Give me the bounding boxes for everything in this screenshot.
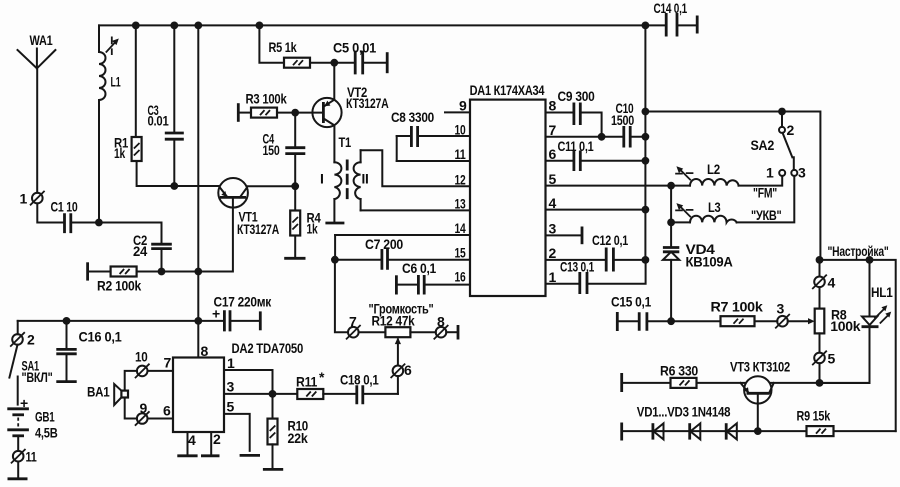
svg-text:7: 7 [549, 122, 557, 138]
pin 15 DA1 [388, 245, 471, 261]
svg-text:C17 220мк: C17 220мк [214, 294, 273, 310]
node 8 (volume terminal) [434, 314, 449, 340]
svg-text:R6 330: R6 330 [660, 363, 698, 379]
svg-text:C18 0,1: C18 0,1 [340, 372, 379, 388]
T1 winding I [334, 162, 341, 199]
svg-text:C11 0,1: C11 0,1 [558, 138, 594, 154]
svg-text:1: 1 [20, 191, 28, 207]
svg-text:6: 6 [163, 403, 171, 419]
pin 6 DA2 [148, 403, 174, 419]
pin 10 DA1 [418, 122, 470, 138]
resistor R3 100k [238, 91, 323, 122]
svg-text:0.01: 0.01 [148, 113, 169, 129]
capacitor C1 10 [51, 199, 99, 234]
transistor VT3 KT3102 [730, 359, 820, 432]
resistor R1 1k [114, 25, 174, 186]
diode VD3 [726, 423, 737, 439]
node 2 (switch terminal) [10, 321, 35, 348]
capacitor C12 0,1 [592, 232, 645, 272]
junction rail/R5 [256, 22, 264, 30]
svg-text:C14 0,1: C14 0,1 [654, 0, 688, 16]
T1 winding II [354, 162, 361, 199]
junction VD4/C15/R7 [667, 317, 675, 325]
junction C9/pin7 [598, 133, 606, 141]
coil L3 [671, 199, 737, 222]
node 5 (R8 bottom terminal) [812, 351, 835, 384]
IC DA1 K174XA34 [470, 82, 546, 296]
supply wire SA1 to bus [18, 320, 199, 322]
coil L1 [99, 25, 121, 222]
junction R5/C5/VT2 [330, 59, 338, 67]
junction pin1/pin3/R10/R11 [269, 390, 277, 398]
wire emitter node to VT1 [174, 185, 219, 187]
capacitor C9 300 [558, 88, 602, 137]
svg-text:11: 11 [455, 146, 466, 162]
varicap diode VD4 KB109A [663, 186, 733, 322]
svg-text:C5 0,01: C5 0,01 [333, 40, 376, 56]
switch SA2 [751, 112, 807, 181]
wire antenna to C1 [37, 203, 64, 222]
pin 16 DA1 [424, 269, 470, 285]
svg-text:6: 6 [404, 362, 412, 378]
pin 11 DA1 [397, 146, 470, 162]
junction rail/C14 [642, 22, 650, 30]
LED HL1 [820, 260, 893, 383]
svg-text:8: 8 [437, 314, 445, 330]
junction bus/C10 [642, 133, 650, 141]
svg-text:C9 300: C9 300 [558, 88, 595, 104]
svg-text:"ВКЛ": "ВКЛ" [22, 369, 53, 385]
svg-text:R7 100k: R7 100k [711, 299, 764, 315]
svg-text:13: 13 [455, 196, 466, 212]
svg-text:R5 1k: R5 1k [269, 39, 297, 55]
junction R8 top / Настройка [816, 256, 824, 264]
junction bus/SA2 feed [642, 108, 650, 116]
L1 trimmer arrow [106, 37, 119, 56]
svg-text:DA1 К174ХА34: DA1 К174ХА34 [470, 82, 545, 98]
IC DA2 TDA7050 [173, 340, 303, 432]
pin 2 DA2 [211, 431, 221, 454]
svg-text:I: I [320, 171, 324, 187]
power bus wire (vertical to DA2 pin 8) [197, 25, 199, 357]
svg-text:3: 3 [549, 221, 557, 237]
node 6 (volume wiper terminal) [391, 362, 412, 378]
pin 7 DA1 [546, 122, 624, 138]
right vertical bus wire [644, 25, 646, 260]
svg-text:9: 9 [140, 400, 148, 416]
wiper arrow to R8 [788, 320, 811, 322]
svg-text:1: 1 [549, 269, 557, 285]
stub bar node 8 [446, 325, 458, 340]
junction C2/R2 [158, 268, 166, 276]
resistor R7 100k [671, 299, 777, 327]
wire SA2 contact 3 to L3 ("УКВ") [737, 176, 795, 223]
svg-text:4: 4 [188, 432, 196, 448]
svg-text:2: 2 [213, 431, 221, 447]
ground C16 [56, 380, 76, 383]
svg-text:150: 150 [263, 142, 280, 158]
capacitor C5 0.01 [333, 40, 387, 75]
svg-text:C6 0,1: C6 0,1 [402, 260, 436, 276]
junction VT3 collector / R8-5 / HL1 [816, 379, 824, 387]
pin 9 DA1 [445, 98, 470, 114]
capacitor C8 3300 [391, 109, 434, 161]
svg-text:VT3 КТ3102: VT3 КТ3102 [730, 359, 790, 375]
svg-text:L2: L2 [707, 161, 720, 177]
capacitor C16 0,1 [56, 321, 122, 382]
junction L1/C1 [95, 219, 103, 227]
svg-text:R3 100k: R3 100k [246, 91, 287, 107]
capacitor C2 24 [133, 232, 172, 272]
svg-text:T1: T1 [339, 134, 352, 150]
svg-text:4,5В: 4,5В [35, 425, 58, 441]
pin 4 DA1 [546, 195, 646, 211]
ground T1 winding I [325, 222, 344, 225]
junction VT3 base / diodes / R9 [754, 427, 762, 435]
pin 8 DA1 [546, 98, 574, 114]
ground pin 2 DA2 [201, 454, 220, 457]
svg-text:1k: 1k [114, 145, 125, 161]
svg-text:*: * [319, 369, 325, 385]
svg-text:"Настройка": "Настройка" [828, 243, 889, 259]
diode VD1 [653, 423, 664, 439]
wire C1 node to C2 [99, 223, 162, 245]
wire bus to SA2 [645, 112, 820, 260]
capacitor C13 0,1 [560, 259, 646, 295]
svg-text:VD1...VD3 1N4148: VD1...VD3 1N4148 [637, 404, 731, 420]
ground pin 4 DA2 [177, 454, 197, 457]
svg-text:DA2 TDA7050: DA2 TDA7050 [232, 340, 304, 356]
resistor R5 1k [259, 25, 334, 67]
antenna WA1 [18, 32, 56, 193]
transformer T1 [320, 134, 369, 223]
junction pin14/C7/volume [331, 256, 339, 264]
svg-text:14: 14 [455, 220, 466, 236]
svg-text:2: 2 [787, 122, 795, 138]
wire VT1 base to bus [198, 197, 233, 271]
svg-text:8: 8 [201, 343, 209, 359]
junction bus/R2 [194, 268, 202, 276]
pin 14 DA1 [335, 220, 470, 260]
ground R10 [263, 468, 283, 471]
junction rail/bus [194, 22, 202, 30]
junction rail/C3 [170, 22, 178, 30]
svg-text:C1 10: C1 10 [51, 199, 78, 215]
svg-text:КВ109А: КВ109А [686, 254, 733, 270]
svg-text:C16 0,1: C16 0,1 [79, 329, 122, 345]
svg-text:4: 4 [549, 195, 557, 211]
junction R3/C4/VT2 base [291, 109, 299, 117]
resistor R11 [296, 369, 357, 399]
capacitor C14 0,1 [645, 0, 697, 37]
transistor VT1 KT3127A [218, 178, 279, 237]
node 11 (battery minus terminal) [11, 449, 37, 465]
svg-text:R2 100k: R2 100k [97, 278, 141, 294]
svg-text:16: 16 [455, 269, 466, 285]
svg-text:3: 3 [227, 379, 235, 395]
capacitor C7 200 [335, 236, 404, 270]
pin 4 DA2 [188, 432, 197, 454]
svg-text:5: 5 [549, 171, 557, 187]
svg-text:9: 9 [459, 98, 467, 114]
svg-text:10: 10 [135, 349, 148, 365]
T1 core [346, 160, 349, 200]
svg-text:КТ3127А: КТ3127А [237, 221, 279, 237]
svg-text:C12 0,1: C12 0,1 [592, 232, 628, 248]
svg-text:R9 15k: R9 15k [797, 408, 831, 424]
svg-text:1: 1 [766, 165, 774, 181]
R12 wiper arrow [395, 337, 401, 365]
svg-text:HL1: HL1 [871, 284, 893, 300]
junction R1/C3 emitter node [170, 182, 178, 190]
diode VD2 [690, 423, 701, 439]
svg-text:C7 200: C7 200 [365, 236, 403, 252]
switch SA1 "ВКЛ" [9, 345, 52, 405]
svg-text:1k: 1k [307, 221, 318, 237]
node 9 (speaker terminal) [135, 400, 150, 426]
node 7 (volume terminal) [346, 314, 361, 340]
node 10 (speaker terminal) [135, 349, 150, 379]
junction L3/VD4 [667, 219, 675, 227]
svg-text:"УКВ": "УКВ" [751, 207, 782, 223]
svg-text:5: 5 [227, 399, 235, 415]
junction bus/C16-C17 [194, 317, 202, 325]
wire VT1 collector to C4/R4 node [248, 185, 296, 187]
pin 7 DA2 [148, 355, 174, 371]
svg-text:8: 8 [549, 98, 557, 114]
potentiometer R12 47k "Громкость" [359, 301, 436, 338]
svg-text:5: 5 [828, 351, 836, 367]
svg-text:100k: 100k [830, 318, 861, 334]
battery GB1 4,5B [7, 395, 57, 451]
svg-text:C13 0,1: C13 0,1 [560, 259, 594, 275]
svg-text:1500: 1500 [611, 112, 634, 128]
resistor R10 22k [268, 394, 309, 470]
svg-text:II: II [362, 171, 369, 187]
junction rail/R1 [132, 22, 140, 30]
svg-text:10: 10 [455, 122, 466, 138]
svg-text:4: 4 [828, 275, 836, 291]
resistor R2 100k [88, 262, 199, 293]
svg-text:15: 15 [455, 245, 466, 261]
wire collector node to HL1 [820, 382, 870, 384]
svg-text:7: 7 [164, 355, 172, 371]
svg-text:3: 3 [798, 165, 806, 181]
svg-text:24: 24 [133, 243, 147, 259]
node 1 (antenna terminal) [20, 191, 45, 207]
pin 13 DA1 / wire to T1 winding II bottom [361, 196, 470, 212]
junction C4/R4/VT1 [291, 182, 299, 190]
pin 1 DA2 [224, 355, 273, 394]
svg-text:7: 7 [349, 314, 357, 330]
pin 3 DA1 stub [546, 221, 583, 245]
capacitor C10 1500 [611, 100, 645, 148]
svg-text:L3: L3 [708, 199, 721, 215]
wire BA1 to node 9 [125, 398, 137, 419]
pin 5 DA2 [224, 399, 250, 451]
svg-text:R11: R11 [296, 374, 317, 390]
svg-text:SA2: SA2 [751, 137, 775, 153]
junction bus/pin4 [642, 206, 650, 214]
loudspeaker BA1 [87, 384, 128, 406]
svg-text:11: 11 [26, 449, 37, 465]
L2 trimmer arrow [675, 166, 693, 180]
ground R4 [284, 257, 305, 260]
wire node10 to BA1 [125, 371, 137, 391]
potentiometer R8 100k [815, 287, 861, 353]
capacitor C4 150 [263, 113, 306, 187]
capacitor C3 0.01 [148, 25, 184, 186]
coil L2 [671, 161, 739, 186]
ground pin 5 DA2 [240, 454, 260, 457]
svg-text:C8 3300: C8 3300 [391, 109, 434, 125]
pin 12 DA1 / wire to T1 winding II top [361, 150, 470, 187]
svg-text:1: 1 [227, 355, 235, 371]
node 3 (tuning wiper terminal) [775, 301, 790, 329]
node 4 (R8 top terminal) [812, 260, 835, 291]
ground GB1 [8, 462, 28, 479]
pin 5 DA1 / wire to L2 [546, 171, 672, 187]
capacitor C18 0,1 [340, 372, 398, 405]
svg-text:2: 2 [549, 245, 557, 261]
svg-text:"FM": "FM" [753, 185, 777, 201]
svg-text:BA1: BA1 [87, 384, 110, 400]
L3 trimmer arrow [675, 203, 693, 217]
resistor R4 1k [290, 186, 321, 258]
diodes VD1...VD3 1N4148 [622, 404, 807, 441]
svg-text:C15 0,1: C15 0,1 [611, 294, 651, 310]
junction bus/C12/C13 [642, 256, 650, 264]
top supply rail wire [99, 24, 645, 26]
pin 3 DA2 [224, 379, 297, 395]
resistor R6 330 [622, 363, 745, 393]
wire Настройка node [820, 243, 896, 431]
svg-text:R12 47k: R12 47k [372, 313, 415, 329]
svg-text:22k: 22k [288, 430, 308, 446]
junction SA2 pin2 wire [778, 108, 786, 116]
capacitor C15 0,1 [611, 294, 671, 332]
junction HL1 / Настройка [866, 256, 874, 264]
pin 6 DA1 [546, 146, 574, 162]
junction pin5/L2/VD4 [667, 182, 675, 190]
capacitor C17 220мк [198, 294, 272, 332]
junction bus/C11 [642, 157, 650, 165]
resistor R9 15k [797, 408, 896, 437]
svg-text:КТ3127А: КТ3127А [346, 95, 389, 111]
svg-text:12: 12 [455, 172, 466, 188]
wire SA2 contact 1 to L2 ("FM") [739, 176, 783, 201]
pin 2 DA1 [546, 245, 607, 261]
svg-text:WA1: WA1 [30, 32, 53, 48]
svg-text:2: 2 [27, 332, 35, 348]
wire C18 to node 6 [397, 376, 399, 394]
junction C16 [63, 317, 71, 325]
transistor VT2 KT3127A [312, 63, 388, 163]
svg-text:L1: L1 [111, 74, 121, 90]
svg-text:6: 6 [549, 146, 557, 162]
capacitor C6 0,1 [396, 260, 436, 295]
wire C7 node down to volume control [335, 260, 348, 333]
pin 1 DA1 [546, 269, 580, 285]
svg-text:3: 3 [777, 301, 785, 317]
svg-text:GB1: GB1 [35, 409, 55, 425]
capacitor C11 0,1 [558, 138, 646, 171]
